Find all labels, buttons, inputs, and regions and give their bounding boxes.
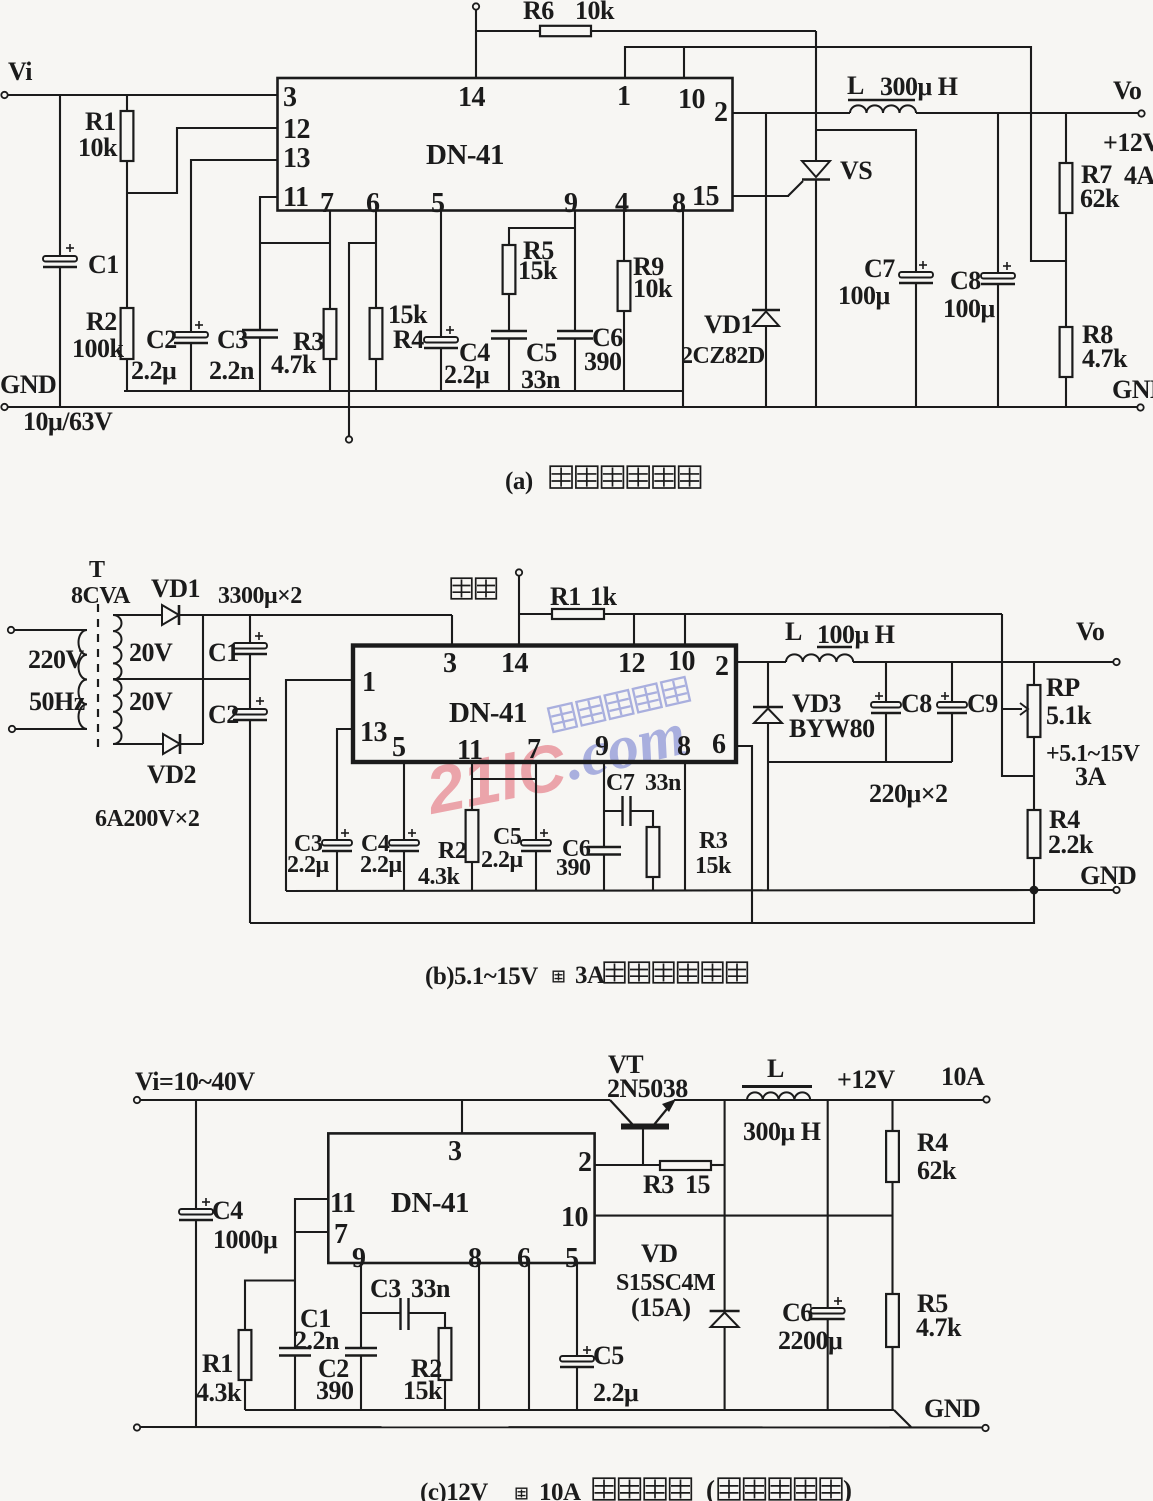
svg-text:8CVA: 8CVA <box>71 583 131 609</box>
svg-text:C9: C9 <box>967 689 998 718</box>
wire 220u rail <box>768 761 952 763</box>
wire R4 to gnd node b <box>1033 858 1035 890</box>
capacitor C1 c 2.2n <box>279 1347 311 1350</box>
svg-text:3A: 3A <box>1075 762 1107 791</box>
IC U2 DN-41 b <box>353 646 736 763</box>
wire C3 branch c <box>361 1312 400 1314</box>
capacitor C6 b 390 <box>587 846 621 849</box>
wire R2 to component rail c <box>444 1380 446 1410</box>
wire C3 to rail b <box>336 851 338 891</box>
wire C1 to component rail c <box>294 1356 296 1411</box>
svg-text:R4: R4 <box>393 325 424 354</box>
wire C1 to tap <box>249 654 251 709</box>
wire pin 5 to C4 b <box>403 762 405 840</box>
wire C7 branch b <box>604 810 622 812</box>
svg-text:1000μ: 1000μ <box>213 1225 278 1254</box>
wire node pin11-pin7 <box>260 242 330 244</box>
capacitor C1 b 3300u <box>233 643 267 649</box>
IC U3 DN-41 c <box>328 1133 594 1263</box>
svg-text:RP: RP <box>1046 673 1080 702</box>
wire C5 to component rail c <box>576 1367 578 1410</box>
wire pin 10 stub b <box>684 614 686 646</box>
resistor R4 <box>370 308 383 359</box>
svg-text:2: 2 <box>578 1147 592 1178</box>
wire AC bottom <box>15 728 87 730</box>
capacitor C1 10u/63V <box>43 256 77 262</box>
wire R2 to rail b <box>471 862 473 891</box>
resistor R4 b <box>1028 810 1041 858</box>
wire L to Vo b <box>853 661 1114 663</box>
svg-text:2.2n: 2.2n <box>209 356 255 385</box>
svg-text:13: 13 <box>283 143 311 174</box>
svg-text:7: 7 <box>527 734 541 765</box>
terminal GND c left <box>134 1424 140 1430</box>
svg-text:6: 6 <box>517 1243 531 1274</box>
thyristor VS <box>802 161 830 177</box>
svg-text:300μ H: 300μ H <box>743 1117 821 1146</box>
wire C5 to rail b <box>535 851 537 891</box>
wire Vo to RP <box>1033 662 1035 685</box>
terminal reset <box>516 569 522 575</box>
svg-text:2: 2 <box>714 97 728 128</box>
svg-text:50Hz: 50Hz <box>29 687 85 716</box>
wire pin 11 c <box>295 1199 328 1281</box>
diode VD3 BYW80 <box>753 706 783 709</box>
wire pin 1 sense line <box>625 47 1066 261</box>
svg-text:220V: 220V <box>28 645 85 674</box>
svg-text:33n: 33n <box>521 365 561 394</box>
wire C6 to rail b <box>603 855 605 892</box>
wire pin 9 to C2 c <box>360 1263 362 1348</box>
wire pin 8 down <box>682 211 684 408</box>
svg-text:5: 5 <box>565 1243 579 1274</box>
svg-text:5: 5 <box>392 732 406 763</box>
svg-text:2: 2 <box>715 651 729 682</box>
capacitor C8 b 220u <box>871 702 901 708</box>
terminal GND c right <box>982 1425 988 1431</box>
wire VD3 to rail <box>767 723 769 890</box>
wire RP to R4 b <box>1033 737 1035 810</box>
svg-text:DN-41: DN-41 <box>449 697 527 729</box>
wire C2 to bottom rail <box>249 720 251 923</box>
capacitor C2 b 3300u <box>233 709 267 715</box>
svg-text:C3: C3 <box>217 325 248 354</box>
svg-text:C8: C8 <box>901 689 932 718</box>
svg-text:12: 12 <box>283 114 310 145</box>
terminal GND b <box>1113 887 1119 893</box>
wire VT emitter to L <box>674 1099 985 1101</box>
svg-text:2.2μ: 2.2μ <box>444 360 490 389</box>
component rail b <box>286 890 1034 891</box>
wire C8 top <box>997 113 999 273</box>
wire VD3 column <box>767 662 769 707</box>
wire pin 12 jog <box>127 128 278 193</box>
svg-text:10k: 10k <box>575 0 615 25</box>
svg-text:13: 13 <box>360 717 388 748</box>
capacitor C5 b 2.2u <box>521 840 551 846</box>
svg-text:300μ H: 300μ H <box>880 72 958 101</box>
wire pin 12 stub b <box>633 614 635 646</box>
svg-text:): ) <box>843 1475 852 1501</box>
svg-text:C3: C3 <box>370 1274 401 1303</box>
thyristor VS column <box>815 31 817 161</box>
wire C7 to ground <box>915 283 917 407</box>
svg-text:5.1k: 5.1k <box>1046 701 1092 730</box>
caption ideographic comma b <box>553 971 564 982</box>
wire pin 9 to C6 <box>574 211 576 332</box>
wire centre tap <box>113 678 250 680</box>
svg-text:DN-41: DN-41 <box>391 1187 469 1219</box>
svg-text:2.2μ: 2.2μ <box>593 1378 639 1407</box>
wire C5 to rail <box>508 339 510 392</box>
svg-text:4.3k: 4.3k <box>196 1378 242 1407</box>
wire pin 7 to R3 <box>329 211 331 310</box>
svg-text:15: 15 <box>685 1170 711 1199</box>
resistor R2 <box>121 308 134 359</box>
wire pin 10 sense c <box>595 1215 893 1217</box>
svg-text:3: 3 <box>448 1136 462 1167</box>
resistor R3 b <box>647 827 660 877</box>
wire pin 11 to R2 b <box>471 762 473 810</box>
wire R9 to rail <box>623 311 625 391</box>
wire sense down <box>1002 614 1034 776</box>
svg-text:C6: C6 <box>782 1298 813 1327</box>
svg-text:10: 10 <box>668 646 695 677</box>
transformer T primary <box>79 630 88 729</box>
wire L to Vo <box>916 112 1139 114</box>
svg-text:R1: R1 <box>550 582 581 611</box>
svg-text:BYW80: BYW80 <box>789 714 875 743</box>
svg-text:Vo: Vo <box>1113 76 1142 105</box>
svg-text:C5: C5 <box>526 338 557 367</box>
wire R4 to R5 node c <box>891 1182 893 1294</box>
svg-text:6: 6 <box>366 188 380 219</box>
svg-text:R6: R6 <box>523 0 554 25</box>
terminal AC input top <box>8 627 14 633</box>
resistor R1 <box>121 111 134 161</box>
wire C3 to rail <box>259 338 261 392</box>
svg-text:11: 11 <box>457 735 482 766</box>
wire pin 9 to C6 b <box>603 762 605 847</box>
wiper arrow RP <box>1002 708 1022 710</box>
svg-text:4.7k: 4.7k <box>271 350 317 379</box>
wire C6 to component rail c <box>827 1319 829 1410</box>
wire VD1 column top <box>765 113 767 310</box>
capacitor C6 c 2200u <box>811 1308 845 1314</box>
diode VD1 2CZ82D <box>752 309 780 312</box>
svg-text:R2: R2 <box>86 307 117 336</box>
capacitor C3 2.2n <box>242 329 278 332</box>
wire C7 branch <box>816 130 916 272</box>
svg-text:Vi: Vi <box>8 57 32 86</box>
wire Vi to VT collector <box>140 1099 610 1101</box>
svg-text:100k: 100k <box>72 334 125 363</box>
svg-text:1: 1 <box>362 667 376 698</box>
svg-text:+12V: +12V <box>1103 128 1153 157</box>
component rail a <box>124 390 683 392</box>
diode VD2 b <box>163 734 180 754</box>
svg-text:100μ: 100μ <box>838 281 891 310</box>
wire R1 top <box>126 95 128 111</box>
wire VD1 to ground <box>765 326 767 407</box>
resistor R9 <box>618 261 631 311</box>
wire R3 to VD column <box>711 1164 725 1166</box>
wire pin 5 to C5 c <box>576 1263 578 1356</box>
resistor R5 c <box>886 1294 899 1347</box>
svg-text:10A: 10A <box>941 1062 985 1091</box>
wire R2 to rail <box>126 359 128 391</box>
wire pin 1 loop <box>286 680 353 891</box>
wire C7 to R3 b <box>631 811 654 827</box>
wire R7 to R8 node <box>1065 213 1067 327</box>
capacitor C3 c 33n <box>399 1298 401 1330</box>
svg-text:9: 9 <box>564 188 578 219</box>
resistor R7 <box>1060 163 1073 213</box>
wire C2 to rail <box>190 343 192 391</box>
terminal GND right <box>1137 404 1143 410</box>
wire C4 to rail <box>440 348 442 391</box>
svg-text:GND: GND <box>1080 861 1136 890</box>
svg-text:(a): (a) <box>505 468 533 495</box>
wire C4 to rail b <box>403 851 405 891</box>
svg-text:4A: 4A <box>1124 161 1153 190</box>
wire VD1 to rail <box>179 614 452 616</box>
wire R1 to R2 node <box>126 161 128 308</box>
svg-text:DN-41: DN-41 <box>426 139 504 171</box>
wire pin 8 down c <box>478 1263 480 1410</box>
svg-text:20V: 20V <box>129 687 173 716</box>
svg-text:VD2: VD2 <box>147 760 196 789</box>
diode VD1 b <box>162 605 179 625</box>
svg-text:R1: R1 <box>202 1349 233 1378</box>
terminal top <box>473 3 479 9</box>
diode VD S15SC4M <box>710 1310 740 1313</box>
svg-text:33n: 33n <box>645 770 681 796</box>
svg-text:33n: 33n <box>411 1274 451 1303</box>
svg-text:3: 3 <box>443 648 457 679</box>
svg-text:(15A): (15A) <box>631 1293 691 1322</box>
resistor R4 c <box>886 1131 899 1182</box>
svg-text:10A: 10A <box>539 1479 581 1501</box>
wire pin 13 to C2 <box>191 160 278 332</box>
wire R5 to C5 <box>508 294 510 331</box>
wire pin 6 jog to test node <box>349 243 376 437</box>
svg-text:11: 11 <box>330 1188 355 1219</box>
wire C2 to component rail c <box>360 1356 362 1411</box>
IC U1 DN-41 <box>278 78 733 211</box>
svg-text:T: T <box>89 557 105 583</box>
svg-text:390: 390 <box>556 855 591 881</box>
wire C4 to bottom rail c <box>195 1220 197 1427</box>
wire Vo to R7 <box>1065 113 1067 163</box>
wire pin 7 to C5 b <box>535 762 537 840</box>
svg-text:10: 10 <box>561 1202 588 1233</box>
wire R3 to rail b <box>652 877 654 891</box>
wire C8 to ground <box>997 284 999 407</box>
svg-text:8: 8 <box>468 1243 482 1274</box>
bottom rail b <box>250 890 1034 923</box>
svg-text:1: 1 <box>617 81 631 112</box>
wire R1 to component rail c <box>244 1380 246 1410</box>
wire pin 9 branch to R5 <box>509 228 575 245</box>
capacitor C4 b 2.2u <box>389 840 419 846</box>
svg-text:14: 14 <box>458 82 486 113</box>
capacitor C4 2.2u <box>424 337 458 343</box>
svg-text:Vo: Vo <box>1076 617 1105 646</box>
wire R4 to rail <box>375 359 377 391</box>
wire VS cathode to ground <box>815 180 817 408</box>
svg-text:4.7k: 4.7k <box>1082 344 1128 373</box>
terminal Vo b <box>1113 659 1119 665</box>
wire Vi to IC pin 3 <box>8 94 278 96</box>
transformer secondary <box>113 615 122 744</box>
wire secondary bottom to VD2 <box>113 743 163 745</box>
svg-text:4.3k: 4.3k <box>418 864 461 890</box>
wire pin 4 to R9 <box>623 211 625 262</box>
svg-text:10: 10 <box>678 84 705 115</box>
svg-text:R4: R4 <box>917 1128 948 1157</box>
capacitor C9 b 220u <box>937 702 967 708</box>
svg-text:L: L <box>847 71 864 100</box>
svg-text:10μ/63V: 10μ/63V <box>23 407 113 436</box>
wire gnd node to terminal <box>1034 889 1114 891</box>
resistor R2 b <box>466 810 479 862</box>
svg-text:2.2μ: 2.2μ <box>481 847 524 873</box>
svg-text:2CZ82D: 2CZ82D <box>681 343 765 369</box>
wire C9 top b <box>951 662 953 702</box>
wire VS gate <box>788 181 803 196</box>
svg-text:C5: C5 <box>593 1341 624 1370</box>
svg-text:14: 14 <box>501 648 529 679</box>
capacitor C5 33n <box>491 330 527 333</box>
svg-text:7: 7 <box>334 1219 348 1250</box>
capacitor C8 100u <box>981 273 1015 279</box>
svg-text:2200μ: 2200μ <box>778 1326 843 1355</box>
svg-text:100μ: 100μ <box>943 294 996 323</box>
svg-text:15k: 15k <box>403 1376 443 1405</box>
svg-text:2.2μ: 2.2μ <box>131 356 177 385</box>
terminal 10A output <box>983 1096 989 1102</box>
wire pin 11 to C3 <box>260 197 278 330</box>
svg-text:C1: C1 <box>208 638 239 667</box>
svg-text:VS: VS <box>840 156 872 185</box>
wire pin 6 b <box>736 746 752 923</box>
terminal AC input bottom <box>9 726 15 732</box>
svg-text:C1: C1 <box>88 250 119 279</box>
wire R5 to rail end c <box>891 1347 893 1409</box>
capacitor C6 390 <box>557 330 593 333</box>
svg-text:GND: GND <box>0 370 56 399</box>
terminal GND left <box>1 404 7 410</box>
svg-text:VD1: VD1 <box>704 310 753 339</box>
svg-text:10k: 10k <box>78 133 118 162</box>
terminal test point <box>346 436 352 442</box>
wire C1 to ground rail <box>59 267 61 407</box>
svg-text:VD: VD <box>641 1239 678 1268</box>
wire secondary top to VD1 <box>113 614 162 616</box>
watermark .com <box>558 700 692 794</box>
svg-text:10k: 10k <box>633 274 673 303</box>
svg-text:390: 390 <box>584 347 622 376</box>
capacitor C2 2.2u <box>174 332 208 338</box>
wire pin 6 to R4 <box>375 211 377 309</box>
svg-text:(: ( <box>706 1475 715 1501</box>
potentiometer RP 5.1k <box>1028 685 1041 737</box>
svg-text:GND: GND <box>1112 375 1153 404</box>
caption text c2 - dian liu kuo zhan xing <box>718 1478 740 1500</box>
svg-text:62k: 62k <box>917 1156 957 1185</box>
svg-text:6: 6 <box>712 729 726 760</box>
svg-text:C2: C2 <box>146 325 177 354</box>
svg-text:11: 11 <box>283 182 308 213</box>
resistor R6 <box>540 26 591 36</box>
svg-text:(c)12V: (c)12V <box>420 1479 488 1501</box>
wire pin 14 to reset terminal <box>475 9 477 78</box>
inductor L 300uH <box>850 105 916 113</box>
wire AC top <box>14 629 87 631</box>
wire C4 branch c <box>195 1100 197 1209</box>
wire pin11-pin7 jog b <box>472 778 536 780</box>
wire R1 left <box>519 613 552 615</box>
svg-text:62k: 62k <box>1080 184 1120 213</box>
svg-text:15k: 15k <box>695 853 732 879</box>
resistor R3 c <box>660 1161 711 1170</box>
component rail c <box>245 1409 894 1411</box>
wire C1 column c <box>294 1281 296 1349</box>
svg-text:5: 5 <box>431 188 445 219</box>
wire R3 to rail <box>329 359 331 391</box>
resistor R8 <box>1060 327 1073 377</box>
watermark 21IC <box>419 728 573 828</box>
svg-text:4.7k: 4.7k <box>916 1313 962 1342</box>
wire pin 2 to base node c <box>595 1164 660 1166</box>
wire rail to C1 b <box>249 615 251 643</box>
wire pin 15 to gate <box>733 195 790 197</box>
svg-text:3A: 3A <box>575 962 605 989</box>
svg-text:VD1: VD1 <box>151 574 200 603</box>
svg-text:L: L <box>767 1054 784 1083</box>
inductor L c 300uH <box>747 1092 810 1100</box>
wire VT base <box>642 1129 644 1165</box>
wire pin 6 down c <box>528 1263 530 1410</box>
terminal Vo <box>1138 110 1144 116</box>
svg-text:12: 12 <box>618 648 645 679</box>
wire R6 left <box>476 30 540 32</box>
wire reset to pin 14 <box>518 576 520 647</box>
wire VD to component rail c <box>724 1327 726 1410</box>
terminal Vi c <box>134 1097 140 1103</box>
svg-text:3: 3 <box>283 82 297 113</box>
wire C1 branch <box>59 95 61 256</box>
resistor R3 <box>324 309 337 359</box>
transformer core <box>97 604 99 752</box>
svg-text:9: 9 <box>352 1243 366 1274</box>
svg-text:7: 7 <box>320 188 334 219</box>
svg-text:4: 4 <box>615 188 629 219</box>
svg-text:GND: GND <box>924 1394 980 1423</box>
wire VD column <box>724 1100 726 1311</box>
wire pin 2 output <box>733 112 851 114</box>
caption text c - wen ya dian yuan <box>593 1478 615 1500</box>
resistor R5 <box>503 245 516 294</box>
wire C6 column c <box>827 1100 829 1308</box>
caption ideographic comma c <box>516 1488 527 1499</box>
capacitor C5 c 2.2u <box>560 1356 594 1362</box>
caption text a - dian xing ying yong dian lu <box>550 466 572 488</box>
wire pin 3 stub c <box>461 1100 463 1133</box>
wire pin 10 stub <box>683 47 685 78</box>
svg-text:220μ×2: 220μ×2 <box>869 779 948 808</box>
